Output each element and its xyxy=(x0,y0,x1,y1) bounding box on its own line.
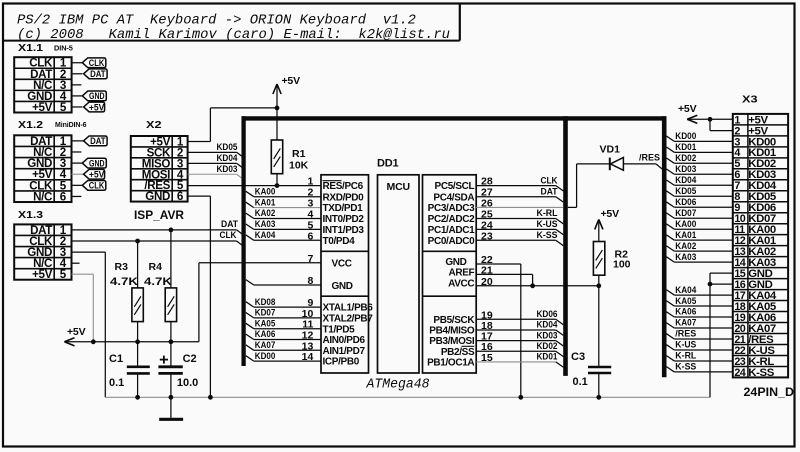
wire GND pin8 from bus xyxy=(246,280,254,285)
wire KD00 from bus to MCU xyxy=(246,356,254,361)
svg-text:+5V: +5V xyxy=(89,102,105,112)
svg-text:CLK: CLK xyxy=(220,230,237,241)
wire KD01 from bus to X3 pin 4 xyxy=(666,147,674,152)
svg-text:KD03: KD03 xyxy=(537,330,558,341)
svg-text:0.1: 0.1 xyxy=(573,376,588,388)
svg-text:8: 8 xyxy=(307,275,313,287)
wire C2 top xyxy=(170,342,172,366)
+5V arrow X3 xyxy=(687,115,697,123)
net tag CLK (X1.1) xyxy=(82,58,106,68)
svg-text:KA02: KA02 xyxy=(675,241,696,252)
wire X1.2 pin4 to tag (grey) xyxy=(72,173,84,175)
svg-text:GND: GND xyxy=(445,257,466,268)
svg-text:AIN1/PD7: AIN1/PD7 xyxy=(323,346,366,357)
wire KA01 from bus to MCU xyxy=(246,202,254,207)
wire KA02 from bus to X3 pin 13 xyxy=(666,246,674,251)
svg-text:KA06: KA06 xyxy=(675,307,696,318)
capacitor C3 xyxy=(588,366,611,369)
wire +5V to X3 pin1 xyxy=(687,118,733,120)
wire C3 top xyxy=(598,286,600,366)
svg-text:PC0/ADC0: PC0/ADC0 xyxy=(428,236,475,247)
+5V arrow left xyxy=(64,338,74,346)
wire R4 bottom to +5V rail xyxy=(170,322,172,342)
wire X1.1 pin4 to tag xyxy=(72,95,83,97)
svg-text:AVCC: AVCC xyxy=(448,278,474,289)
wire DAT from MCU to bus xyxy=(476,196,556,198)
junction R4/C2 on rail xyxy=(169,339,174,344)
wire AVCC pin20 xyxy=(476,285,599,287)
capacitor C2 polarity + xyxy=(160,359,168,361)
svg-text:AREF: AREF xyxy=(448,268,474,279)
wire cathode VD1 to bus xyxy=(623,163,656,165)
svg-text:INT0/PD2: INT0/PD2 xyxy=(323,214,365,225)
svg-text:KD04: KD04 xyxy=(675,175,697,186)
svg-text:KA00: KA00 xyxy=(255,186,275,197)
svg-text:KD03: KD03 xyxy=(675,164,696,175)
wire R4 top to DAT wire xyxy=(170,230,172,288)
svg-text:PC5/SCL: PC5/SCL xyxy=(435,181,475,192)
svg-text:GND: GND xyxy=(89,158,105,168)
svg-text:+5V: +5V xyxy=(601,208,620,220)
wire /RES from X2 pin5 to MCU pin1 xyxy=(188,185,321,187)
wire X1.2 pin3 to tag xyxy=(72,162,83,164)
svg-text:PC4/SDA: PC4/SDA xyxy=(433,192,474,203)
svg-text:X1.1: X1.1 xyxy=(18,42,43,54)
svg-text:X3: X3 xyxy=(742,94,758,106)
net tag DAT (X1.2) xyxy=(84,136,108,146)
svg-text:RES/PC6: RES/PC6 xyxy=(323,181,364,192)
svg-text:DAT: DAT xyxy=(221,219,238,230)
svg-text:CLK: CLK xyxy=(89,58,105,68)
svg-text:KA05: KA05 xyxy=(255,318,276,329)
wire CLK from X1.3 pin2 to bus xyxy=(72,240,237,242)
wire KD07 from bus to X3 pin 10 xyxy=(666,213,674,218)
wire KA05 from bus to X3 pin 18 xyxy=(666,301,674,306)
svg-text:(c) 2008 Kamil Karimov (caro: (c) 2008 Kamil Karimov (caro) E-mail: k2… xyxy=(17,27,450,43)
wire X1.1 pin3 stub xyxy=(72,84,82,86)
svg-text:KD02: KD02 xyxy=(675,153,696,164)
wire GND X3 pin16 xyxy=(710,283,733,285)
wire K-US from MCU to bus xyxy=(476,228,556,230)
svg-text:/RES: /RES xyxy=(639,153,660,164)
svg-text:6: 6 xyxy=(177,190,184,203)
svg-text:K-SS: K-SS xyxy=(537,230,558,241)
capacitor C1 xyxy=(127,365,150,368)
wire C2 bottom to GND rail xyxy=(170,374,172,397)
wire X1.2 pin6 stub xyxy=(72,195,82,197)
wire GND from X2 pin6 xyxy=(188,195,211,197)
junction X3 +5V xyxy=(708,117,713,122)
wire X1.1 pin1 to tag xyxy=(72,62,83,64)
GND rail bottom (grey) xyxy=(105,396,710,398)
wire KA04 from bus to MCU xyxy=(246,235,254,240)
svg-text:KA00: KA00 xyxy=(675,219,696,230)
wire +5V rail to VCC xyxy=(198,263,200,342)
resistor R1 xyxy=(271,140,282,174)
wire R2 bottom xyxy=(598,275,600,286)
svg-text:XTAL2/PB7: XTAL2/PB7 xyxy=(323,314,374,325)
svg-text:GND: GND xyxy=(332,281,353,292)
wire +5V from X2 pin1 xyxy=(188,140,211,142)
svg-text:KA02: KA02 xyxy=(255,208,275,219)
wire anode VD1 xyxy=(577,163,610,165)
wire /RES from bus to X3 pin 21 xyxy=(666,334,674,339)
svg-text:VD1: VD1 xyxy=(600,144,621,156)
svg-text:RXD/PD0: RXD/PD0 xyxy=(323,192,365,203)
wire GND pin22 xyxy=(476,263,521,265)
resistor R3 xyxy=(132,288,143,322)
junction R3/CLK xyxy=(135,239,140,244)
wire X1.1 pin2 to tag xyxy=(72,73,83,75)
wire KD03 from X2 pin4 to bus (grey) xyxy=(188,173,237,175)
wire C1 bottom to GND rail xyxy=(137,374,139,397)
wire KD05 from X2 pin2 to bus xyxy=(188,151,237,153)
wire GND from X1.3 pin3 xyxy=(72,251,106,253)
connector X1.1 DIN-5 xyxy=(14,57,71,112)
junction C2/GND rail xyxy=(169,395,174,400)
bus bar left xyxy=(241,116,245,366)
svg-text:KD03: KD03 xyxy=(217,164,238,175)
svg-text:24: 24 xyxy=(734,367,745,379)
svg-text:KD01: KD01 xyxy=(537,352,559,363)
svg-text:GND: GND xyxy=(145,190,170,203)
svg-text:5: 5 xyxy=(60,268,67,281)
wire KA07 from bus to X3 pin 20 xyxy=(666,323,674,328)
junction R4/DAT xyxy=(169,228,174,233)
svg-text:KD02: KD02 xyxy=(537,341,558,352)
wire AREF pin21 xyxy=(476,273,532,275)
svg-text:K-US: K-US xyxy=(537,219,558,230)
wire +5V from X1.3 pin5 (grey) xyxy=(72,273,94,275)
resistor R2 xyxy=(593,242,604,276)
svg-text:PC1/ADC1: PC1/ADC1 xyxy=(428,225,475,236)
capacitor C2 xyxy=(158,365,182,368)
op box MCU center xyxy=(378,175,420,373)
svg-text:KD01: KD01 xyxy=(675,142,697,153)
svg-text:MCU: MCU xyxy=(387,181,410,193)
svg-text:KA06: KA06 xyxy=(255,329,275,340)
diode VD1 xyxy=(609,158,611,171)
wire PC3/ADC3 pin26 to diode (grey) xyxy=(476,206,563,208)
junction C3/GND rail xyxy=(596,395,601,400)
svg-text:14: 14 xyxy=(302,351,314,363)
svg-text:R1: R1 xyxy=(292,148,306,160)
+5V arrow top xyxy=(273,84,281,94)
wire KA01 from bus to X3 pin 12 xyxy=(666,235,674,240)
wire R3 top to CLK wire xyxy=(137,241,139,288)
svg-text:INT1/PD3: INT1/PD3 xyxy=(323,225,365,236)
svg-text:KA04: KA04 xyxy=(255,230,276,241)
junction pin21/pin20 xyxy=(530,283,535,288)
svg-text:PB4/MISO: PB4/MISO xyxy=(429,326,475,337)
svg-text:PB2/SS: PB2/SS xyxy=(441,347,475,358)
svg-text:ISP_AVR: ISP_AVR xyxy=(134,210,185,222)
svg-text:100: 100 xyxy=(613,259,631,271)
wire KA00 from bus to MCU xyxy=(246,191,254,196)
svg-text:KD05: KD05 xyxy=(217,142,239,153)
svg-text:KA03: KA03 xyxy=(255,219,275,230)
svg-text:C2: C2 xyxy=(183,353,197,365)
svg-text:DIN-5: DIN-5 xyxy=(54,44,73,53)
wire KA00 from bus to X3 pin 11 xyxy=(666,224,674,229)
svg-text:K-SS: K-SS xyxy=(675,362,696,373)
svg-text:PC2/ADC2: PC2/ADC2 xyxy=(428,214,475,225)
svg-text:KD00: KD00 xyxy=(675,131,696,142)
wire KA04 from bus to X3 pin 17 xyxy=(666,290,674,295)
wire DAT from X1.3 pin1 to bus xyxy=(72,229,237,231)
junction +5V/R1/X2 xyxy=(275,106,280,111)
svg-text:X2: X2 xyxy=(146,119,162,131)
svg-text:GND: GND xyxy=(89,91,105,101)
wire K-RL from MCU to bus xyxy=(476,218,556,220)
svg-text:KA01: KA01 xyxy=(675,230,697,241)
net tag +5V (X1.2) xyxy=(84,169,105,179)
svg-text:DAT: DAT xyxy=(90,69,106,79)
wire X1.2 pin5 to tag xyxy=(72,184,83,186)
svg-text:K-SS: K-SS xyxy=(748,367,774,379)
wire X1.2 pin1 to tag xyxy=(72,140,84,142)
svg-text:KA07: KA07 xyxy=(255,340,275,351)
op box MCU left column xyxy=(321,175,369,373)
wire X3 pin2 +5V xyxy=(709,119,711,130)
svg-text:TXD/PD1: TXD/PD1 xyxy=(323,203,364,214)
wire KA03 from bus to X3 pin 14 xyxy=(666,257,674,262)
wire X1.1 pin5 to tag xyxy=(72,106,83,108)
svg-text:KD07: KD07 xyxy=(255,308,275,319)
svg-text:T0/PD4: T0/PD4 xyxy=(323,236,356,247)
svg-text:AIN0/PD6: AIN0/PD6 xyxy=(323,335,366,346)
svg-text:K-US: K-US xyxy=(675,340,696,351)
wire GND X3 pin15 xyxy=(710,272,733,274)
wire X1.2 pin2 stub xyxy=(72,151,82,153)
svg-text:KA01: KA01 xyxy=(255,197,276,208)
svg-text:X1.2: X1.2 xyxy=(18,119,43,131)
wire KA02 from bus to MCU xyxy=(246,213,254,218)
wire KD02 from MCU to bus xyxy=(476,350,556,352)
wire C1 top xyxy=(137,342,139,366)
wire R1 bottom to pin1 xyxy=(276,174,278,186)
svg-text:K-RL: K-RL xyxy=(537,208,558,219)
wire KA07 from bus to MCU xyxy=(246,345,254,350)
svg-text:KD07: KD07 xyxy=(675,208,696,219)
svg-text:+5V: +5V xyxy=(32,101,53,114)
wire KD04 from bus to X3 pin 7 xyxy=(666,180,674,185)
junction X3 GND xyxy=(708,282,713,287)
svg-text:ICP/PB0: ICP/PB0 xyxy=(323,357,360,368)
svg-text:6: 6 xyxy=(307,230,313,242)
junction R1 bottom on pin1 wire xyxy=(275,183,280,188)
svg-text:DAT: DAT xyxy=(90,136,106,146)
svg-text:PC3/ADC3: PC3/ADC3 xyxy=(428,203,475,214)
svg-text:N/C: N/C xyxy=(33,190,53,203)
junction R2/C3/AVCC xyxy=(596,283,601,288)
bus bar middle xyxy=(563,116,568,376)
wire K-SS from MCU to bus xyxy=(476,239,556,241)
svg-text:KD00: KD00 xyxy=(255,351,275,362)
svg-text:4.7K: 4.7K xyxy=(144,276,172,288)
junction X2 GND/GND rail xyxy=(208,395,213,400)
wire KD03 from MCU to bus xyxy=(476,340,556,342)
svg-text:4.7K: 4.7K xyxy=(110,276,138,288)
svg-text:CLK: CLK xyxy=(89,181,105,191)
connector X2 ISP_AVR xyxy=(131,136,188,202)
wire C3 bottom to GND rail xyxy=(598,374,600,398)
wire KD06 from MCU to bus xyxy=(476,318,556,320)
net tag GND (X1.1) xyxy=(82,91,106,101)
svg-text:PB3/MOSI: PB3/MOSI xyxy=(429,336,475,347)
svg-text:KD06: KD06 xyxy=(537,309,558,320)
wire ground stem xyxy=(170,397,172,418)
+5V rail left xyxy=(64,341,199,343)
svg-text:CLK: CLK xyxy=(541,175,558,186)
svg-text:ATMega48: ATMega48 xyxy=(366,377,430,392)
wire KD05 from bus to X3 pin 8 xyxy=(666,191,674,196)
wire CLK from MCU to bus xyxy=(476,185,556,187)
ground symbol xyxy=(159,418,183,421)
svg-text:VCC: VCC xyxy=(332,259,352,270)
junction R3/C1 on rail xyxy=(135,339,140,344)
net tag DAT (X1.1) xyxy=(84,69,108,79)
svg-text:+5V: +5V xyxy=(89,170,105,180)
+5V arrow R2 xyxy=(595,219,603,229)
net tag +5V (X1.1) xyxy=(84,102,105,112)
svg-text:7: 7 xyxy=(307,253,313,265)
wire KD03 from bus to X3 pin 6 xyxy=(666,169,674,174)
wire KD06 from bus to X3 pin 9 xyxy=(666,202,674,207)
svg-text:24PIN_D: 24PIN_D xyxy=(744,387,795,399)
wire K-US from bus to X3 pin 22 xyxy=(666,345,674,350)
wire KD04 from MCU to bus xyxy=(476,329,556,331)
title block separator xyxy=(3,40,460,42)
svg-text:K-RL: K-RL xyxy=(675,351,696,362)
connector X1.3 xyxy=(14,224,71,279)
resistor R4 xyxy=(165,288,176,322)
svg-text:KD05: KD05 xyxy=(675,186,697,197)
svg-text:+5V: +5V xyxy=(32,268,53,281)
svg-text:+5V: +5V xyxy=(67,326,86,338)
wire KD01 from MCU to bus xyxy=(476,361,556,363)
svg-text:+5V: +5V xyxy=(678,103,697,115)
wire KD02 from bus to X3 pin 5 xyxy=(666,158,674,163)
wire +5V to R2 xyxy=(598,222,600,242)
svg-text:PB1/OC1A: PB1/OC1A xyxy=(427,358,474,369)
bus bar right xyxy=(662,116,667,377)
wire KA06 from bus to X3 pin 19 xyxy=(666,312,674,317)
net tag CLK (X1.2) xyxy=(82,180,106,190)
bus top bar xyxy=(242,116,667,120)
svg-text:KD08: KD08 xyxy=(255,297,275,308)
junction pin22/GND rail xyxy=(518,395,523,400)
wire KD00 from bus to X3 pin 3 xyxy=(666,136,674,141)
svg-text:T1/PD5: T1/PD5 xyxy=(323,324,356,335)
svg-text:PB5/SCK: PB5/SCK xyxy=(433,315,475,326)
svg-text:C3: C3 xyxy=(571,351,585,363)
net tag GND (X1.2) xyxy=(82,158,106,168)
wire KA03 from bus to MCU xyxy=(246,224,254,229)
svg-text:10.0: 10.0 xyxy=(177,377,198,389)
svg-text:C1: C1 xyxy=(109,353,123,365)
wire R3 bottom to +5V rail xyxy=(137,322,139,342)
svg-text:+5V: +5V xyxy=(282,75,301,87)
svg-text:PS/2 IBM PC AT Keyboard -> OR: PS/2 IBM PC AT Keyboard -> ORION Keyboar… xyxy=(17,13,416,29)
wire KD08 from bus to MCU xyxy=(246,302,254,307)
svg-text:KA05: KA05 xyxy=(675,296,697,307)
svg-text:KA04: KA04 xyxy=(675,285,697,296)
svg-text:KD06: KD06 xyxy=(675,197,696,208)
wire VCC pin7 xyxy=(199,262,321,264)
svg-text:10K: 10K xyxy=(289,160,309,172)
svg-text:KD04: KD04 xyxy=(217,153,239,164)
junction C1/GND rail xyxy=(135,395,140,400)
wire KA05 from bus to MCU xyxy=(246,323,254,328)
svg-text:R3: R3 xyxy=(115,261,129,273)
svg-text:X1.3: X1.3 xyxy=(18,209,43,221)
svg-text:DD1: DD1 xyxy=(377,158,398,170)
connector X3 24PIN_D xyxy=(733,114,788,378)
svg-text:R4: R4 xyxy=(149,261,163,273)
wire K-SS from bus to X3 pin 24 xyxy=(666,367,674,372)
wire KD04 from X2 pin3 to bus xyxy=(188,162,237,164)
svg-text:KA07: KA07 xyxy=(675,318,696,329)
svg-text:6: 6 xyxy=(60,190,67,203)
op box MCU right column xyxy=(423,175,477,373)
svg-text:/RES: /RES xyxy=(675,329,696,340)
wire KD07 from bus to MCU xyxy=(246,313,254,318)
connector X1.2 MiniDIN-6 xyxy=(14,135,71,202)
wire K-RL from bus to X3 pin 23 xyxy=(666,356,674,361)
svg-text:0.1: 0.1 xyxy=(109,377,124,389)
svg-text:XTAL1/PB6: XTAL1/PB6 xyxy=(323,303,374,314)
svg-text:KA03: KA03 xyxy=(675,252,696,263)
wire X1.3 pin4 stub xyxy=(72,262,80,264)
svg-text:DAT: DAT xyxy=(541,186,558,197)
svg-text:5: 5 xyxy=(60,101,67,114)
svg-text:KD04: KD04 xyxy=(537,320,559,331)
svg-text:MiniDIN-6: MiniDIN-6 xyxy=(55,122,87,129)
wire KA06 from bus to MCU xyxy=(246,334,254,339)
junction X1.3 +5V on rail xyxy=(91,339,96,344)
wire +5V down to R1 xyxy=(276,84,278,140)
